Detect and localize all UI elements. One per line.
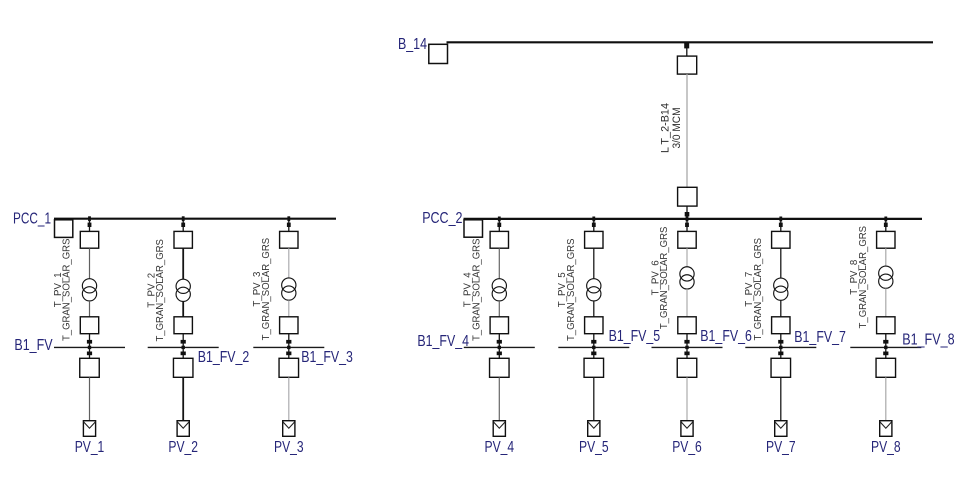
svg-text:B_14: B_14 bbox=[398, 36, 427, 53]
breaker box PV_8 HV bbox=[877, 231, 895, 248]
wire bus B1_FV_8 to inverter box PV_8 bbox=[885, 347, 887, 358]
wire inverter box to PV generator PV_1 bbox=[89, 377, 91, 421]
bus B1_FV_3 bbox=[253, 346, 324, 348]
switch (closed) CB_3 at PCC bbox=[287, 223, 291, 227]
breaker box PV_4 HV bbox=[490, 231, 508, 248]
wire LV breaker to bus B1_FV_2 bbox=[182, 334, 184, 348]
node junction on bus B1_FV_7 bbox=[779, 346, 782, 349]
bus B1_FV_5 bbox=[558, 346, 629, 348]
breaker box PV_2 HV bbox=[174, 231, 192, 248]
breaker box PV_3 LV bbox=[280, 317, 298, 334]
switch (closed) CB_2 at PCC bbox=[181, 223, 185, 227]
wire B_14 to line terminal bbox=[686, 43, 688, 57]
switch (closed) above bus B1_FV_7 bbox=[778, 340, 783, 344]
svg-text:T_GRAN_SOLAR_GRS: T_GRAN_SOLAR_GRS bbox=[261, 238, 272, 341]
inverter box PV_3 bbox=[279, 358, 299, 377]
svg-text:PV_8: PV_8 bbox=[871, 439, 901, 456]
svg-text:PV_3: PV_3 bbox=[274, 439, 304, 456]
svg-text:B1_FV_5: B1_FV_5 bbox=[609, 328, 661, 345]
transformer T_PV_6 LV winding bbox=[680, 275, 694, 289]
svg-text:B1_FV_3: B1_FV_3 bbox=[301, 349, 353, 366]
line L T_2-B14 terminal box (PCC_2 side) bbox=[678, 187, 697, 206]
PV generator symbol PV_5 bbox=[588, 421, 600, 437]
node junction on bus B1_FV_8 bbox=[884, 346, 887, 349]
switch (closed) CB_6 at PCC bbox=[685, 223, 689, 227]
wire bus B1_FV_7 to inverter box PV_7 bbox=[780, 347, 782, 358]
breaker box PV_4 LV bbox=[490, 317, 508, 334]
bus B1_FV_2 bbox=[148, 346, 219, 348]
line L T_2-B14 conductor bbox=[686, 74, 688, 187]
PV generator symbol PV_7 bbox=[775, 421, 787, 437]
switch (closed) above bus B1_FV_3 bbox=[286, 340, 291, 344]
wire bus B1_FV_2 to inverter box PV_2 bbox=[182, 347, 184, 358]
switch (closed) above bus B1_FV_2 bbox=[181, 340, 186, 344]
PV generator symbol PV_2 bbox=[177, 421, 189, 437]
bus B1_FV_4 bbox=[464, 346, 535, 348]
svg-text:PV_1: PV_1 bbox=[75, 439, 105, 456]
breaker box PV_7 LV bbox=[772, 317, 790, 334]
transformer T_PV_1 HV winding bbox=[82, 279, 96, 293]
wire breaker to transformer T_PV_5 bbox=[593, 248, 595, 278]
svg-text:T_GRAN_SOLAR_GRS: T_GRAN_SOLAR_GRS bbox=[659, 226, 670, 329]
bus B1_FV_8 bbox=[850, 346, 921, 348]
terminal box at PCC_1 left end bbox=[55, 220, 73, 238]
breaker box PV_8 LV bbox=[877, 317, 895, 334]
svg-text:B1_FV_2: B1_FV_2 bbox=[198, 349, 250, 366]
bus B_14 bbox=[447, 41, 934, 43]
wire bus B1_FV_4 to inverter box PV_4 bbox=[498, 347, 500, 358]
node tap PV_3 on PCC bus bbox=[287, 216, 290, 221]
svg-text:T_GRAN_SOLAR_GRS: T_GRAN_SOLAR_GRS bbox=[753, 238, 764, 341]
inverter box PV_1 bbox=[80, 358, 100, 377]
wire line terminal to PCC_2 bbox=[686, 206, 688, 218]
transformer T_PV_6 HV winding bbox=[680, 267, 694, 281]
switch (closed) above bus B1_FV_6 bbox=[684, 340, 689, 344]
switch (closed) below bus B1_FV_7 bbox=[778, 352, 783, 356]
wire LV breaker to bus B1_FV_3 bbox=[288, 334, 290, 348]
switch (closed) CB_4 at PCC bbox=[497, 223, 501, 227]
node junction on B_14 bbox=[684, 43, 689, 49]
svg-text:PV_6: PV_6 bbox=[672, 439, 702, 456]
transformer T_PV_5 HV winding bbox=[587, 279, 601, 293]
inverter box PV_8 bbox=[876, 358, 896, 377]
switch (closed) below bus B1_FV_6 bbox=[684, 352, 689, 356]
breaker box PV_5 HV bbox=[585, 231, 603, 248]
node tap PV_4 on PCC bus bbox=[498, 217, 501, 222]
transformer T_PV_8 HV winding bbox=[879, 266, 893, 280]
transformer T_PV_2 LV winding bbox=[176, 287, 190, 301]
inverter box PV_6 bbox=[677, 358, 697, 377]
wire breaker to transformer T_PV_6 bbox=[686, 248, 688, 267]
wire LV breaker to bus B1_FV_6 bbox=[686, 334, 688, 348]
breaker box PV_1 LV bbox=[80, 317, 98, 334]
breaker box PV_3 HV bbox=[280, 231, 298, 248]
PV generator symbol PV_6 bbox=[681, 421, 693, 437]
terminal box at PCC_2 left end bbox=[464, 220, 483, 237]
node tap PV_2 on PCC bus bbox=[182, 216, 185, 221]
node junction on bus B1_FV_3 bbox=[287, 346, 290, 349]
wire transformer T_PV_7 to LV breaker bbox=[780, 300, 782, 317]
wire breaker to transformer T_PV_8 bbox=[885, 248, 887, 266]
wire inverter box to PV generator PV_3 bbox=[288, 377, 290, 421]
svg-text:3/0 MCM: 3/0 MCM bbox=[671, 108, 683, 149]
wire PCC bus to breaker box PV_4 bbox=[498, 219, 500, 232]
switch (closed) below bus B1_FV_1 bbox=[87, 352, 92, 356]
transformer T_PV_4 HV winding bbox=[492, 279, 506, 293]
wire PCC bus to breaker box PV_1 bbox=[89, 219, 91, 232]
svg-text:PV_5: PV_5 bbox=[579, 439, 609, 456]
wire LV breaker to bus B1_FV_4 bbox=[498, 334, 500, 348]
breaker box PV_5 LV bbox=[585, 317, 603, 334]
PV generator symbol PV_4 bbox=[493, 421, 505, 437]
wire PCC bus to breaker box PV_5 bbox=[593, 219, 595, 232]
wire LV breaker to bus B1_FV_7 bbox=[780, 334, 782, 348]
svg-text:B1_FV_4: B1_FV_4 bbox=[417, 333, 469, 350]
bus B1_FV_1 bbox=[54, 346, 125, 348]
transformer T_PV_3 HV winding bbox=[282, 278, 296, 292]
wire bus B1_FV_1 to inverter box PV_1 bbox=[89, 347, 91, 358]
wire PCC bus to breaker box PV_7 bbox=[780, 219, 782, 232]
line L T_2-B14 terminal box (B_14 side) bbox=[677, 56, 696, 74]
switch (closed) above bus B1_FV_8 bbox=[883, 340, 888, 344]
breaker box PV_6 HV bbox=[678, 231, 696, 248]
PV generator symbol PV_8 bbox=[880, 421, 892, 437]
svg-text:PV_2: PV_2 bbox=[168, 439, 198, 456]
switch (closed) CB_8 at PCC bbox=[884, 223, 888, 227]
wire transformer T_PV_5 to LV breaker bbox=[593, 301, 595, 317]
wire transformer T_PV_2 to LV breaker bbox=[182, 302, 184, 317]
breaker box PV_6 LV bbox=[678, 317, 696, 334]
svg-text:L T_2-B14: L T_2-B14 bbox=[659, 103, 671, 153]
transformer T_PV_1 LV winding bbox=[82, 287, 96, 301]
wire inverter box to PV generator PV_6 bbox=[686, 377, 688, 421]
wire transformer T_PV_8 to LV breaker bbox=[885, 288, 887, 317]
switch (closed) below bus B1_FV_5 bbox=[591, 352, 596, 356]
PV generator symbol PV_1 bbox=[83, 421, 95, 437]
transformer T_PV_2 HV winding bbox=[176, 279, 190, 293]
svg-text:PCC_2: PCC_2 bbox=[422, 210, 462, 227]
svg-text:T_GRAN_SOLAR_GRS: T_GRAN_SOLAR_GRS bbox=[858, 226, 869, 329]
svg-text:PV_4: PV_4 bbox=[485, 439, 515, 456]
terminal box at B_14 left end bbox=[429, 44, 448, 63]
switch (closed) above bus B1_FV_5 bbox=[591, 340, 596, 344]
transformer T_PV_4 LV winding bbox=[492, 287, 506, 301]
wire LV breaker to bus B1_FV_8 bbox=[885, 334, 887, 348]
node junction on bus B1_FV_1 bbox=[88, 346, 91, 349]
breaker box PV_2 LV bbox=[174, 317, 192, 334]
wire PCC bus to breaker box PV_6 bbox=[686, 219, 688, 232]
wire inverter box to PV generator PV_7 bbox=[780, 377, 782, 421]
bus PCC_2 bbox=[464, 218, 923, 220]
wire PCC bus to breaker box PV_2 bbox=[182, 219, 184, 232]
switch (closed) CB_7 at PCC bbox=[779, 223, 783, 227]
svg-text:B1_FV: B1_FV bbox=[14, 337, 53, 354]
switch (closed) below bus B1_FV_8 bbox=[883, 352, 888, 356]
wire bus B1_FV_6 to inverter box PV_6 bbox=[686, 347, 688, 358]
wire transformer T_PV_3 to LV breaker bbox=[288, 300, 290, 317]
node junction on bus B1_FV_4 bbox=[498, 346, 501, 349]
node junction on bus B1_FV_2 bbox=[182, 346, 185, 349]
transformer T_PV_5 LV winding bbox=[587, 287, 601, 301]
wire bus B1_FV_3 to inverter box PV_3 bbox=[288, 347, 290, 358]
transformer T_PV_7 HV winding bbox=[774, 278, 788, 292]
wire breaker to transformer T_PV_4 bbox=[498, 248, 500, 278]
transformer T_PV_7 LV winding bbox=[774, 286, 788, 300]
node tap PV_5 on PCC bus bbox=[592, 217, 595, 222]
switch (closed) below bus B1_FV_3 bbox=[286, 352, 291, 356]
inverter box PV_5 bbox=[584, 358, 604, 377]
svg-text:T_GRAN_SOLAR_GRS: T_GRAN_SOLAR_GRS bbox=[62, 238, 73, 341]
switch (closed) above bus B1_FV_4 bbox=[497, 340, 502, 344]
switch (closed) CB_1 at PCC bbox=[88, 223, 92, 227]
wire inverter box to PV generator PV_4 bbox=[498, 377, 500, 421]
transformer T_PV_8 LV winding bbox=[879, 274, 893, 288]
node tap PV_6 on PCC bus bbox=[686, 217, 689, 222]
wire inverter box to PV generator PV_8 bbox=[885, 377, 887, 421]
wire LV breaker to bus B1_FV_5 bbox=[593, 334, 595, 348]
inverter box PV_7 bbox=[771, 358, 791, 377]
wire breaker to transformer T_PV_3 bbox=[288, 248, 290, 278]
node tap PV_1 on PCC bus bbox=[88, 216, 91, 221]
bus B1_FV_6 bbox=[652, 346, 723, 348]
wire LV breaker to bus B1_FV_1 bbox=[89, 334, 91, 348]
bus PCC_1 bbox=[54, 218, 336, 220]
svg-text:B1_FV_6: B1_FV_6 bbox=[700, 328, 752, 345]
node junction on bus B1_FV_6 bbox=[685, 346, 688, 349]
wire PCC bus to breaker box PV_8 bbox=[885, 219, 887, 232]
switch (closed) below bus B1_FV_4 bbox=[497, 352, 502, 356]
switch (closed) line to PCC_2 bbox=[685, 212, 690, 216]
bus B1_FV_7 bbox=[745, 346, 816, 348]
wire bus B1_FV_5 to inverter box PV_5 bbox=[593, 347, 595, 358]
wire transformer T_PV_1 to LV breaker bbox=[89, 301, 91, 317]
wire PCC bus to breaker box PV_3 bbox=[288, 219, 290, 232]
wire transformer T_PV_4 to LV breaker bbox=[498, 301, 500, 317]
wire breaker to transformer T_PV_7 bbox=[780, 248, 782, 278]
PV generator symbol PV_3 bbox=[283, 421, 295, 437]
wire inverter box to PV generator PV_2 bbox=[182, 377, 184, 421]
inverter box PV_2 bbox=[173, 358, 193, 377]
wire transformer T_PV_6 to LV breaker bbox=[686, 289, 688, 317]
switch (closed) below bus B1_FV_2 bbox=[181, 352, 186, 356]
node junction on bus B1_FV_5 bbox=[592, 346, 595, 349]
breaker box PV_7 HV bbox=[772, 231, 790, 248]
transformer T_PV_3 LV winding bbox=[282, 286, 296, 300]
breaker box PV_1 HV bbox=[80, 231, 98, 248]
svg-text:PV_7: PV_7 bbox=[766, 439, 796, 456]
svg-text:B1_FV_8: B1_FV_8 bbox=[902, 332, 954, 349]
node tap PV_7 on PCC bus bbox=[779, 217, 782, 222]
switch (closed) CB_5 at PCC bbox=[592, 223, 596, 227]
wire breaker to transformer T_PV_2 bbox=[182, 248, 184, 279]
inverter box PV_4 bbox=[490, 358, 510, 377]
svg-text:PCC_1: PCC_1 bbox=[13, 211, 51, 228]
wire inverter box to PV generator PV_5 bbox=[593, 377, 595, 421]
svg-text:T_GRAN_SOLAR_GRS: T_GRAN_SOLAR_GRS bbox=[471, 238, 482, 341]
svg-text:B1_FV_7: B1_FV_7 bbox=[794, 329, 846, 346]
switch (closed) above bus B1_FV_1 bbox=[87, 340, 92, 344]
svg-text:T_GRAN_SOLAR_GRS: T_GRAN_SOLAR_GRS bbox=[566, 238, 577, 341]
wire breaker to transformer T_PV_1 bbox=[89, 248, 91, 278]
node tap PV_8 on PCC bus bbox=[884, 217, 887, 222]
svg-text:T_GRAN_SOLAR_GRS: T_GRAN_SOLAR_GRS bbox=[155, 239, 166, 342]
